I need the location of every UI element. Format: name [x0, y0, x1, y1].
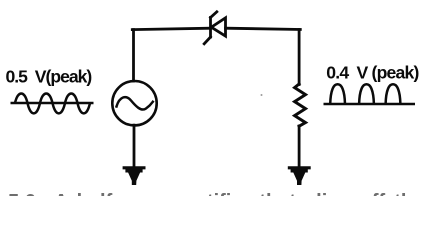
ground (right, under resistor)	[288, 166, 311, 185]
zener diode D1 triangle	[211, 18, 225, 36]
wire right vertical (corner to resistor)	[298, 30, 301, 85]
svg-text:5.6 A half-wave rectifier tha: 5.6 A half-wave rectifier that clips off…	[8, 191, 422, 196]
input waveform symbol (sine, 3 cycles)	[11, 93, 94, 113]
zener diode D1 top hook	[211, 12, 217, 18]
resistor R1	[295, 84, 306, 126]
ground (left, under source)	[123, 166, 146, 185]
zener diode D1 bottom hook	[204, 37, 210, 44]
ac source V1 circle	[112, 81, 156, 125]
wire top-left horizontal	[132, 28, 210, 29]
wire left vertical (top corner to source)	[132, 30, 135, 81]
svg-text:0.5 V(peak): 0.5 V(peak)	[6, 67, 92, 87]
scan speck	[261, 94, 263, 96]
ac source V1 sine symbol	[117, 97, 153, 109]
zener diode D1 cathode bar	[209, 18, 212, 38]
wire source to ground	[133, 125, 136, 167]
wire top-right horizontal	[226, 28, 301, 29]
wire resistor to ground	[298, 126, 301, 168]
svg-text:0.4 V (peak): 0.4 V (peak)	[326, 63, 418, 83]
output waveform symbol (half-wave humps)	[324, 84, 416, 104]
